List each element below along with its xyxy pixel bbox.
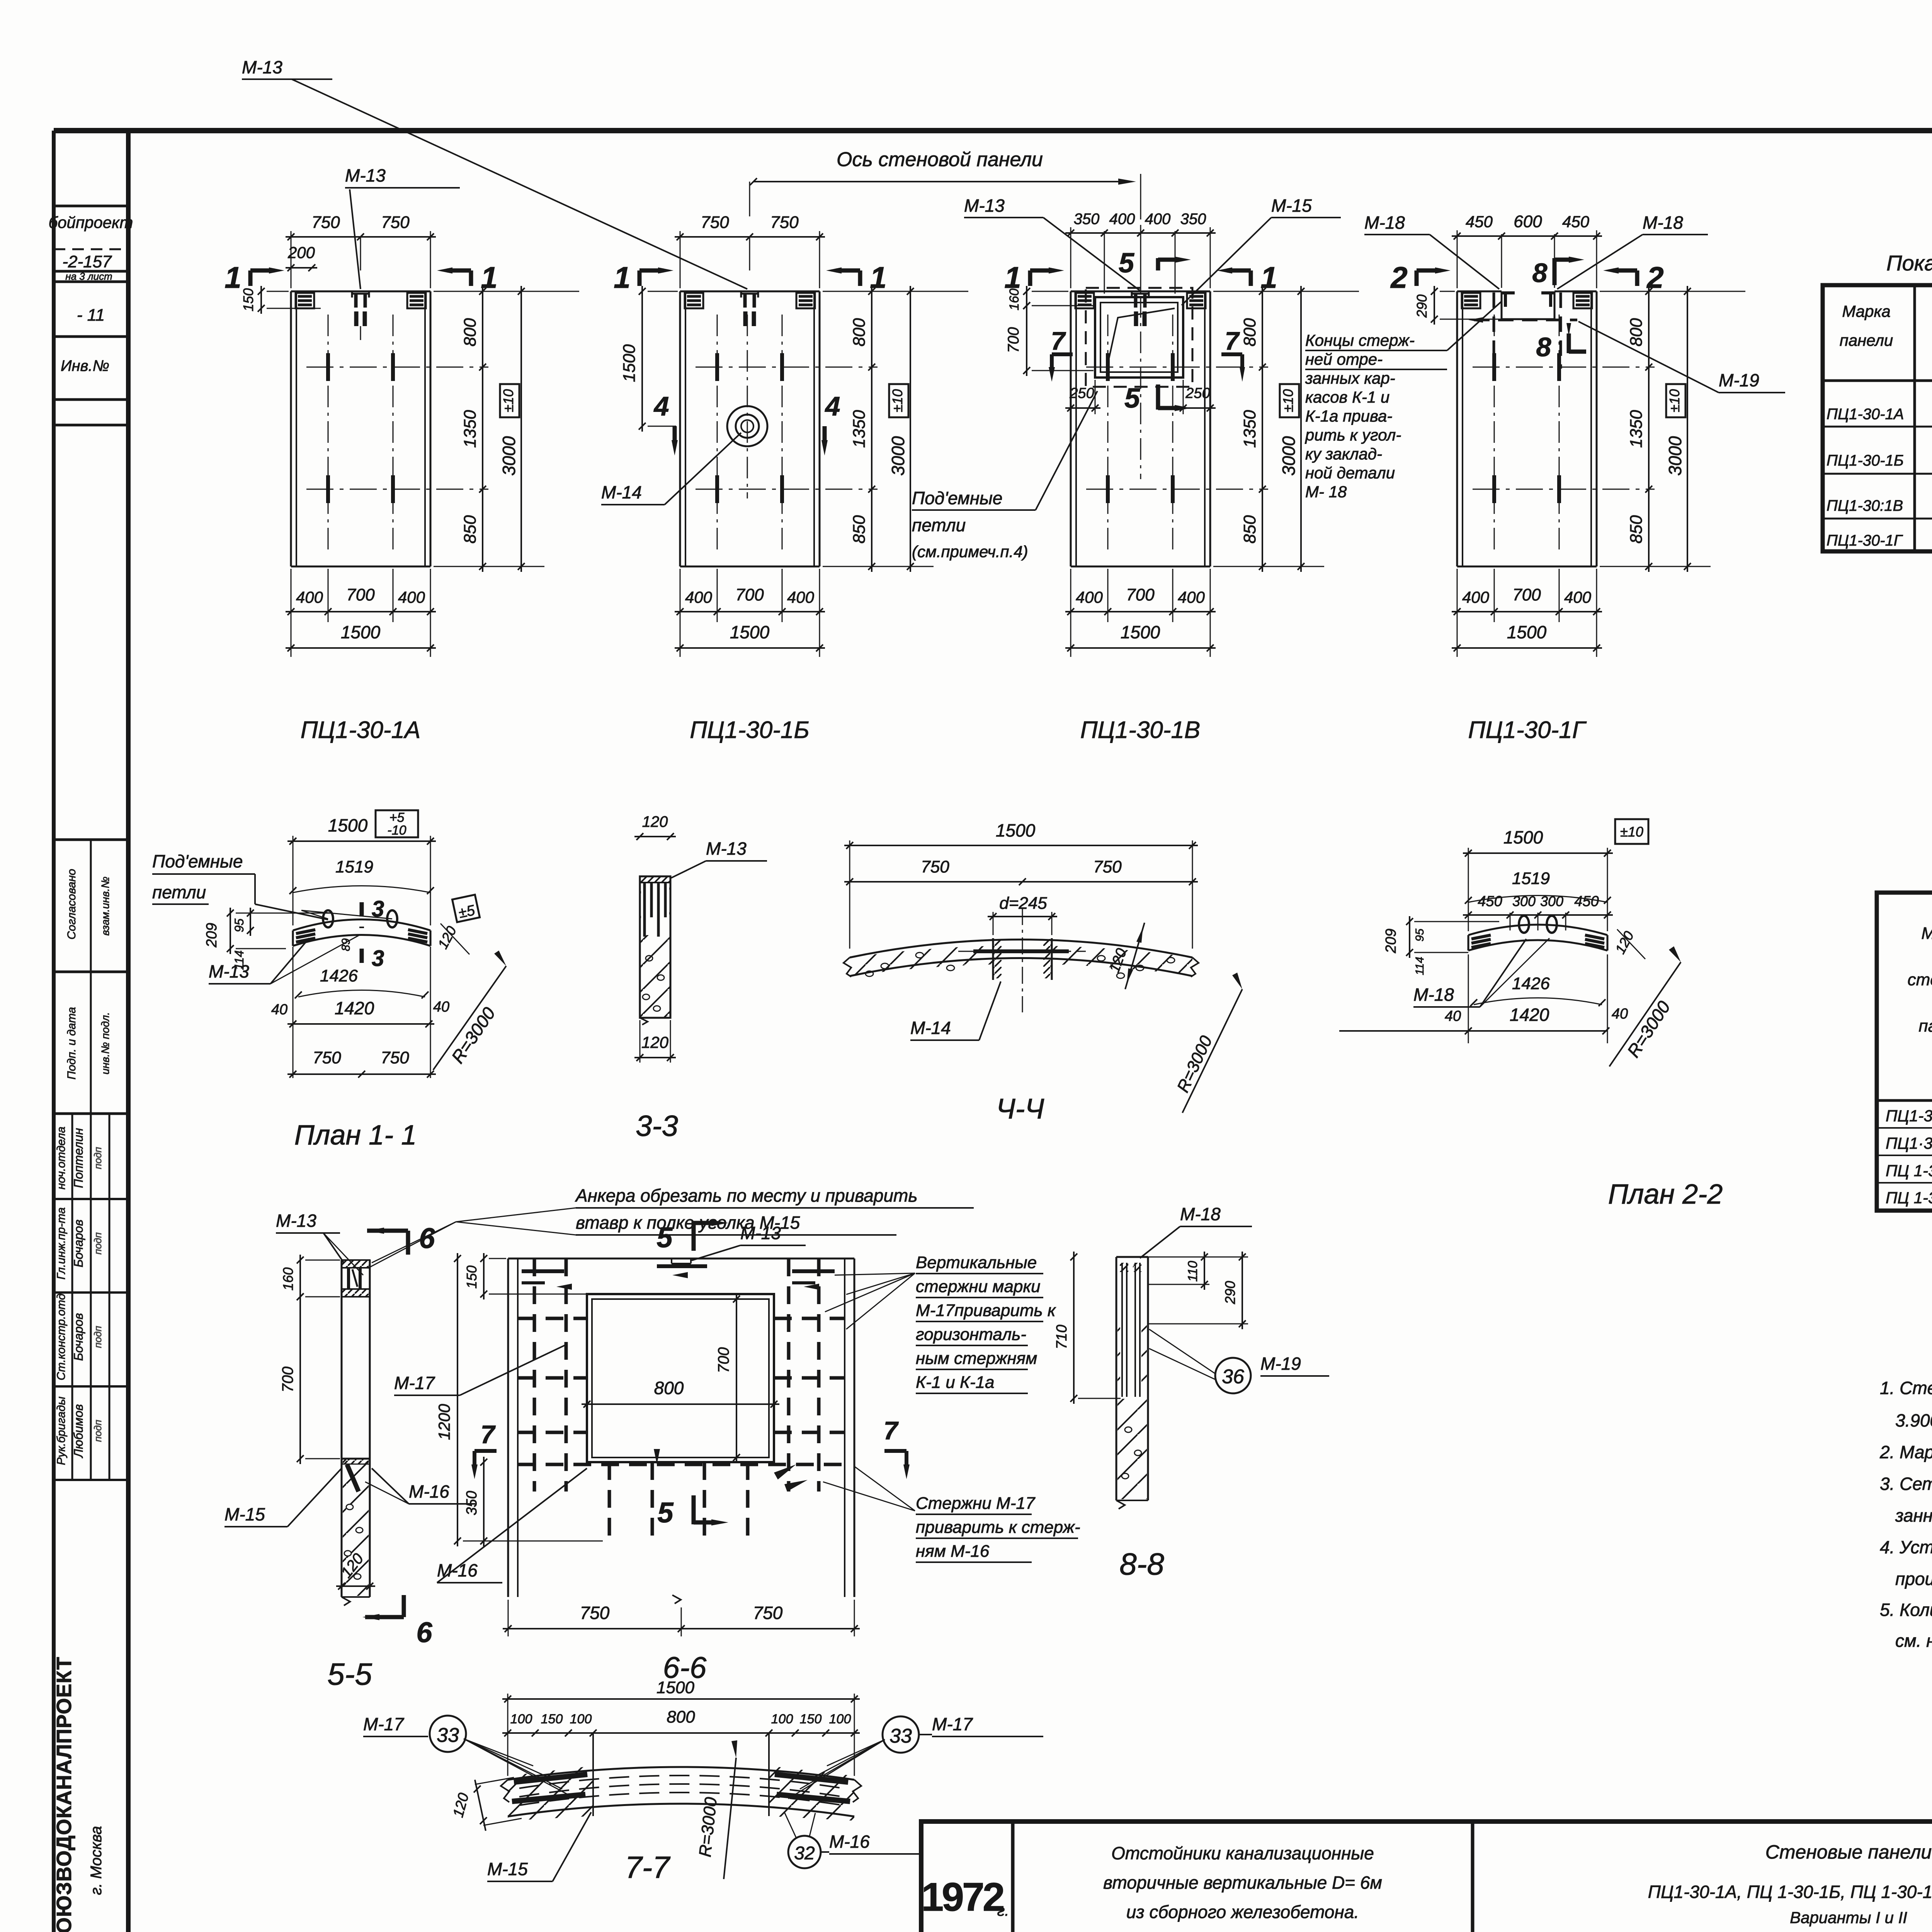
svg-text:ноч.отдела: ноч.отдела: [55, 1127, 68, 1190]
svg-text:800: 800: [654, 1378, 684, 1398]
svg-text:ней отре-: ней отре-: [1305, 350, 1383, 368]
svg-text:ПЦ1-30:1В: ПЦ1-30:1В: [1827, 497, 1903, 514]
svg-text:К-1а прива-: К-1а прива-: [1305, 407, 1392, 425]
svg-text:750: 750: [313, 1048, 341, 1067]
svg-text:250: 250: [1185, 385, 1210, 401]
svg-text:6: 6: [416, 1616, 432, 1648]
svg-text:ПЦ1-30-1А: ПЦ1-30-1А: [1886, 1107, 1932, 1125]
svg-text:8-8: 8-8: [1119, 1547, 1164, 1581]
svg-text:450: 450: [1574, 893, 1599, 910]
svg-text:ПЦ1-30-1А: ПЦ1-30-1А: [301, 717, 421, 743]
svg-text:инв.№ подл.: инв.№ подл.: [99, 1012, 111, 1075]
svg-text:касов К-1 и: касов К-1 и: [1305, 388, 1389, 406]
svg-text:М-17: М-17: [932, 1714, 973, 1734]
svg-text:800: 800: [1240, 318, 1259, 347]
svg-text:Стеновые панели: Стеновые панели: [1765, 1841, 1932, 1863]
svg-text:1500: 1500: [328, 815, 368, 835]
svg-text:М-19: М-19: [1260, 1354, 1301, 1374]
svg-text:Любимов: Любимов: [71, 1404, 85, 1458]
svg-text:209: 209: [204, 923, 220, 947]
svg-text:Поптелин: Поптелин: [71, 1128, 85, 1188]
svg-text:1972: 1972: [921, 1875, 1003, 1920]
svg-text:2: 2: [1390, 260, 1407, 294]
svg-text:750: 750: [311, 213, 340, 232]
svg-text:7: 7: [884, 1416, 899, 1445]
svg-text:850: 850: [850, 515, 869, 544]
svg-text:М-13: М-13: [964, 196, 1005, 216]
svg-text:1500: 1500: [1121, 622, 1160, 642]
svg-text:850: 850: [1627, 515, 1646, 544]
svg-text:350: 350: [1180, 211, 1206, 228]
svg-text:(см.примеч.п.4): (см.примеч.п.4): [912, 543, 1028, 561]
svg-text:ПЦ 1-30 -1Г: ПЦ 1-30 -1Г: [1886, 1189, 1932, 1207]
svg-text:600: 600: [1514, 212, 1542, 231]
svg-text:Гл.инж.пр-та: Гл.инж.пр-та: [55, 1207, 68, 1280]
svg-text:ПЦ1-30-1В: ПЦ1-30-1В: [1080, 717, 1201, 743]
svg-text:2. Марки закладных элементов: 2. Марки закладных элементов см. листы А…: [1879, 1442, 1932, 1462]
svg-text:Варианты I и II: Варианты I и II: [1790, 1908, 1907, 1927]
svg-text:Ст.констр.отд: Ст.констр.отд: [55, 1294, 68, 1381]
svg-text:1500: 1500: [656, 1678, 694, 1697]
svg-text:- 11: - 11: [77, 306, 105, 325]
svg-text:стержни марки: стержни марки: [916, 1277, 1041, 1296]
svg-text:400: 400: [1109, 211, 1135, 228]
svg-text:±10: ±10: [889, 389, 905, 412]
svg-text:1420: 1420: [335, 998, 374, 1018]
svg-text:ПЦ1-30-1Г: ПЦ1-30-1Г: [1468, 717, 1587, 743]
svg-text:подп: подп: [92, 1232, 104, 1254]
svg-text:на 3 лист: на 3 лист: [65, 270, 112, 282]
svg-text:М-15: М-15: [224, 1504, 265, 1524]
svg-text:850: 850: [1240, 515, 1259, 544]
svg-text:±10: ±10: [1280, 389, 1296, 412]
svg-text:М-16: М-16: [829, 1832, 870, 1852]
svg-text:36: 36: [1222, 1366, 1244, 1388]
svg-text:ПЦ 1-30 -1В: ПЦ 1-30 -1В: [1886, 1162, 1932, 1180]
svg-text:400: 400: [1462, 588, 1490, 606]
svg-text:7: 7: [1225, 327, 1240, 355]
svg-text:290: 290: [1222, 1281, 1238, 1304]
svg-text:г.: г.: [997, 1902, 1009, 1919]
svg-text:3000: 3000: [1665, 436, 1685, 476]
svg-text:350: 350: [464, 1491, 480, 1515]
svg-text:750: 750: [381, 1048, 409, 1067]
svg-text:1350: 1350: [850, 410, 869, 448]
svg-text:750: 750: [580, 1603, 610, 1623]
svg-text:ПЦ1-30-1Г: ПЦ1-30-1Г: [1827, 532, 1903, 549]
svg-text:4. Установку верхних под'емн: 4. Установку верхних под'емных петель в …: [1880, 1537, 1932, 1557]
svg-text:d=245: d=245: [999, 894, 1047, 913]
svg-text:40: 40: [1612, 1006, 1628, 1022]
svg-text:150: 150: [240, 288, 256, 311]
svg-text:ПЦ1-30-1Б: ПЦ1-30-1Б: [1827, 452, 1904, 469]
svg-text:горизонталь-: горизонталь-: [916, 1325, 1026, 1344]
svg-text:150: 150: [541, 1712, 563, 1726]
svg-text:М-14: М-14: [601, 482, 642, 502]
svg-text:Рук.бригады: Рук.бригады: [55, 1396, 68, 1465]
svg-text:1426: 1426: [320, 966, 358, 985]
svg-text:М-13: М-13: [706, 838, 747, 859]
svg-text:1. Стеновые панели приняты: 1. Стеновые панели приняты марки ПЦ1- 30…: [1880, 1378, 1932, 1398]
svg-text:Бочаров: Бочаров: [71, 1313, 85, 1361]
svg-text:40: 40: [271, 1002, 287, 1018]
svg-text:700: 700: [346, 585, 375, 604]
svg-text:петли: петли: [152, 882, 206, 902]
svg-text:3000: 3000: [499, 436, 519, 476]
svg-text:450: 450: [1562, 213, 1590, 231]
svg-text:1420: 1420: [1510, 1005, 1549, 1025]
svg-text:95: 95: [232, 918, 246, 932]
svg-text:150: 150: [464, 1265, 480, 1289]
svg-text:400: 400: [685, 588, 713, 606]
svg-text:400: 400: [296, 588, 323, 606]
svg-text:290: 290: [1414, 294, 1430, 318]
svg-text:стеновой: стеновой: [1908, 970, 1932, 989]
svg-text:Концы стерж-: Концы стерж-: [1305, 331, 1415, 349]
svg-text:М-18: М-18: [1180, 1204, 1221, 1224]
svg-text:М-13: М-13: [276, 1211, 316, 1231]
svg-text:3.900-2 выпуск 3 с добавле: 3.900-2 выпуск 3 с добавлением закладных…: [1895, 1410, 1932, 1430]
svg-text:1500: 1500: [1503, 827, 1543, 847]
svg-text:95: 95: [1413, 929, 1426, 942]
svg-text:План 1- 1: План 1- 1: [294, 1120, 417, 1151]
svg-text:ням М-16: ням М-16: [916, 1542, 990, 1561]
svg-text:1: 1: [1260, 260, 1277, 294]
svg-text:1: 1: [614, 260, 630, 294]
svg-text:400: 400: [1178, 588, 1205, 606]
svg-text:150: 150: [800, 1712, 822, 1726]
svg-text:Показатели на одну панель: Показатели на одну панель: [1886, 251, 1932, 275]
svg-text:М-17: М-17: [363, 1714, 404, 1734]
svg-text:Под'емные: Под'емные: [152, 851, 243, 871]
svg-text:100: 100: [829, 1712, 851, 1726]
svg-text:7-7: 7-7: [625, 1850, 670, 1884]
svg-text:М- 18: М- 18: [1305, 483, 1347, 501]
svg-text:5: 5: [1124, 383, 1140, 414]
svg-text:Марка: Марка: [1842, 302, 1890, 320]
svg-text:1500: 1500: [341, 622, 381, 642]
svg-text:приварить к стерж-: приварить к стерж-: [916, 1518, 1080, 1537]
svg-text:М-13: М-13: [345, 165, 386, 185]
svg-text:3000: 3000: [1279, 436, 1299, 476]
svg-text:400: 400: [1076, 588, 1103, 606]
svg-text:М-16: М-16: [409, 1481, 449, 1502]
svg-text:М-13: М-13: [209, 961, 249, 981]
svg-text:800: 800: [850, 318, 869, 347]
svg-text:3: 3: [372, 946, 384, 971]
svg-text:подп: подп: [92, 1326, 104, 1348]
svg-text:700: 700: [1126, 585, 1155, 604]
svg-text:100: 100: [570, 1712, 592, 1726]
svg-text:700: 700: [735, 585, 764, 604]
svg-text:Подп. и дата: Подп. и дата: [65, 1007, 78, 1080]
svg-text:160: 160: [1007, 289, 1022, 311]
svg-text:5: 5: [657, 1497, 674, 1529]
svg-text:100: 100: [510, 1712, 532, 1726]
svg-text:М-13: М-13: [242, 57, 282, 77]
svg-text:400: 400: [787, 588, 815, 606]
svg-text:бойпроект: бойпроект: [49, 213, 133, 231]
svg-text:1500: 1500: [996, 820, 1036, 840]
svg-text:ПЦ1·30-1Б: ПЦ1·30-1Б: [1886, 1134, 1932, 1152]
svg-text:400: 400: [1145, 211, 1171, 228]
svg-text:8: 8: [1532, 258, 1548, 288]
svg-text:800: 800: [667, 1708, 695, 1726]
svg-text:М-19: М-19: [1719, 370, 1759, 390]
svg-text:г. Москва: г. Москва: [88, 1826, 105, 1895]
svg-text:ПЦ1-30-1А, ПЦ 1-30-1Б, ПЦ 1-30: ПЦ1-30-1А, ПЦ 1-30-1Б, ПЦ 1-30-1В, ПЦ 1-…: [1648, 1882, 1932, 1902]
svg-text:М-15: М-15: [1271, 196, 1312, 216]
svg-text:М-14: М-14: [910, 1018, 951, 1038]
svg-text:3-3: 3-3: [636, 1110, 678, 1143]
svg-text:Марка: Марка: [1921, 924, 1932, 943]
svg-text:Отстойники канализационные: Отстойники канализационные: [1111, 1843, 1374, 1863]
svg-text:33: 33: [437, 1724, 459, 1747]
svg-text:3. Сетки в местах отверстий: 3. Сетки в местах отверстий вырезать по …: [1880, 1474, 1932, 1494]
svg-text:1426: 1426: [1512, 974, 1550, 993]
svg-text:Бочаров: Бочаров: [71, 1219, 85, 1267]
svg-text:±10: ±10: [1620, 824, 1643, 840]
svg-text:-10: -10: [387, 823, 406, 838]
svg-text:из сборного железобетона.: из сборного железобетона.: [1126, 1902, 1359, 1922]
svg-text:700: 700: [279, 1367, 296, 1393]
svg-text:5: 5: [1119, 248, 1134, 279]
svg-text:Ч-Ч: Ч-Ч: [996, 1093, 1044, 1125]
svg-text:110: 110: [1185, 1261, 1200, 1282]
svg-text:производить по данному черте: производить по данному чертежу.: [1895, 1569, 1932, 1589]
svg-text:панели: панели: [1918, 1017, 1932, 1036]
svg-text:1350: 1350: [461, 410, 480, 448]
svg-text:панели: панели: [1840, 331, 1893, 349]
svg-text:ПЦ1-30-1А: ПЦ1-30-1А: [1827, 406, 1904, 423]
svg-text:±10: ±10: [500, 389, 516, 412]
svg-text:1: 1: [224, 260, 241, 294]
svg-text:700: 700: [715, 1347, 732, 1373]
svg-text:400: 400: [398, 588, 425, 606]
svg-text:1350: 1350: [1627, 410, 1646, 448]
svg-text:750: 750: [381, 213, 410, 232]
svg-text:Ось стеновой панели: Ось стеновой панели: [837, 148, 1043, 171]
svg-text:занных кар-: занных кар-: [1305, 369, 1395, 387]
svg-text:1519: 1519: [335, 857, 373, 876]
svg-text:Инв.№: Инв.№: [61, 357, 109, 374]
svg-text:рить к угол-: рить к угол-: [1304, 426, 1401, 444]
svg-text:160: 160: [280, 1267, 296, 1291]
svg-text:План 2-2: План 2-2: [1608, 1179, 1723, 1210]
svg-text:7: 7: [481, 1420, 496, 1449]
svg-text:120: 120: [641, 1033, 669, 1051]
svg-text:К-1 и К-1а: К-1 и К-1а: [916, 1373, 995, 1392]
svg-text:М-18: М-18: [1413, 985, 1454, 1005]
svg-text:33: 33: [889, 1725, 912, 1747]
svg-text:4: 4: [653, 391, 669, 421]
svg-text:ПЦ1-30-1Б: ПЦ1-30-1Б: [690, 717, 810, 743]
svg-text:1500: 1500: [1507, 622, 1547, 642]
svg-text:М-17приварить к: М-17приварить к: [916, 1301, 1056, 1320]
svg-text:1: 1: [481, 260, 497, 294]
svg-text:114: 114: [1413, 957, 1426, 975]
svg-text:Вертикальные: Вертикальные: [916, 1253, 1037, 1272]
svg-text:400: 400: [1564, 588, 1592, 606]
svg-text:М-18: М-18: [1643, 213, 1683, 233]
svg-text:1500: 1500: [730, 622, 770, 642]
svg-text:петли: петли: [912, 515, 966, 535]
svg-text:710: 710: [1054, 1325, 1070, 1349]
svg-text:Согласовано: Согласовано: [65, 869, 78, 940]
svg-text:8: 8: [1536, 332, 1551, 362]
svg-text:40: 40: [1445, 1008, 1461, 1024]
svg-text:300: 300: [1512, 893, 1536, 909]
svg-text:взам.инв.№: взам.инв.№: [99, 877, 111, 936]
svg-text:подп: подп: [92, 1147, 104, 1169]
svg-text:7: 7: [1051, 327, 1066, 355]
svg-text:Анкера обрезать по месту и при: Анкера обрезать по месту и приварить: [575, 1185, 918, 1206]
svg-text:Стержни М-17: Стержни М-17: [916, 1494, 1036, 1513]
svg-text:СОЮЗВОДОКАНАЛПРОЕКТ: СОЮЗВОДОКАНАЛПРОЕКТ: [53, 1656, 76, 1932]
svg-text:М-17: М-17: [394, 1373, 435, 1393]
svg-text:750: 750: [753, 1603, 783, 1623]
svg-text:втавр к полке уголка М-15: втавр к полке уголка М-15: [576, 1213, 800, 1233]
svg-text:250: 250: [1069, 385, 1094, 401]
svg-text:1519: 1519: [1512, 869, 1550, 888]
svg-text:5-5: 5-5: [327, 1657, 372, 1691]
svg-text:ной детали: ной детали: [1305, 464, 1395, 482]
svg-text:3000: 3000: [888, 436, 908, 476]
svg-text:ку заклад-: ку заклад-: [1305, 445, 1382, 463]
svg-text:4: 4: [825, 391, 840, 421]
svg-text:1350: 1350: [1240, 410, 1259, 448]
svg-text:800: 800: [461, 318, 480, 347]
svg-text:700: 700: [1005, 327, 1022, 353]
svg-text:1500: 1500: [620, 344, 639, 382]
svg-text:1: 1: [870, 260, 886, 294]
svg-text:450: 450: [1466, 213, 1493, 231]
svg-text:М-18: М-18: [1364, 213, 1405, 233]
svg-text:450: 450: [1478, 893, 1502, 910]
svg-text:750: 750: [921, 857, 949, 876]
svg-text:см. на листах АС - 3, Ч, 5.: см. на листах АС - 3, Ч, 5.: [1895, 1631, 1932, 1651]
svg-text:±10: ±10: [1667, 389, 1682, 412]
svg-text:32: 32: [794, 1843, 815, 1864]
svg-text:850: 850: [461, 515, 480, 544]
svg-text:5. Количество стеновых панел: 5. Количество стеновых панелей, подлежащ…: [1880, 1600, 1932, 1620]
svg-text:200: 200: [287, 243, 315, 262]
svg-text:350: 350: [1074, 211, 1100, 228]
svg-text:120: 120: [642, 813, 668, 830]
svg-text:ным стержням: ным стержням: [916, 1349, 1037, 1368]
svg-text:занных стержней приварить: занных стержней приварить к закладным эл…: [1895, 1505, 1932, 1526]
svg-text:40: 40: [433, 999, 449, 1015]
svg-text:вторичные вертикальные D= 6м: вторичные вертикальные D= 6м: [1103, 1872, 1382, 1893]
svg-text:2: 2: [1646, 260, 1663, 294]
svg-text:Под'емные: Под'емные: [912, 488, 1002, 508]
svg-text:209: 209: [1383, 929, 1399, 953]
svg-text:-2-157: -2-157: [62, 252, 112, 271]
svg-text:750: 750: [701, 213, 729, 232]
svg-text:750: 750: [770, 213, 799, 232]
svg-text:1200: 1200: [435, 1404, 453, 1440]
svg-text:750: 750: [1093, 857, 1122, 876]
svg-text:100: 100: [771, 1712, 793, 1726]
svg-text:800: 800: [1627, 318, 1646, 347]
svg-text:подп: подп: [92, 1420, 104, 1442]
svg-text:300: 300: [1540, 893, 1563, 909]
svg-text:М-15: М-15: [487, 1859, 528, 1879]
svg-text:700: 700: [1512, 585, 1541, 604]
